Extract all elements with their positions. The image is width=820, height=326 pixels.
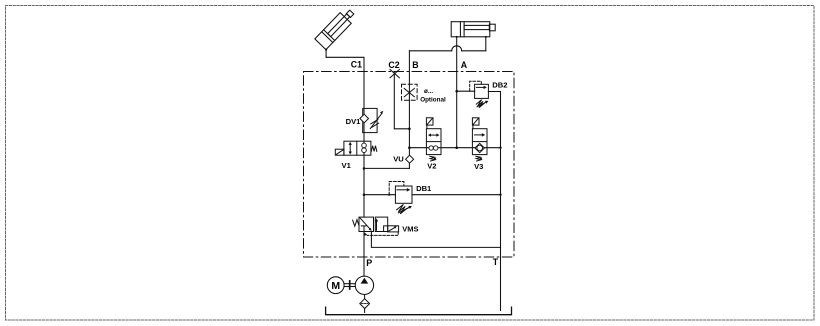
pressure relief valve DB1 bbox=[389, 182, 432, 214]
solenoid valve V3 bbox=[472, 118, 487, 171]
shaft coupling bbox=[344, 281, 355, 289]
cylinder (tilted, C1) bbox=[315, 7, 357, 50]
svg-text:V2: V2 bbox=[427, 161, 436, 170]
wire: DB1 line bbox=[364, 194, 501, 196]
svg-text:C1: C1 bbox=[351, 59, 362, 69]
power unit boundary bbox=[304, 72, 515, 258]
junction dots bbox=[325, 36, 502, 196]
node A bbox=[461, 60, 468, 70]
wire: T line down bbox=[500, 148, 502, 311]
solenoid valve V1 bbox=[335, 141, 377, 170]
node C2 (plugged) bbox=[388, 60, 399, 78]
orifice (optional) bbox=[402, 84, 446, 103]
svg-text:V1: V1 bbox=[342, 161, 352, 170]
throttle check valve DV1 bbox=[346, 108, 384, 132]
node T bbox=[493, 257, 499, 267]
solenoid seat valve VMS bbox=[353, 217, 419, 236]
wire: cylinder C1 stub down bbox=[325, 50, 327, 58]
svg-text:B: B bbox=[412, 60, 418, 70]
node C1 bbox=[351, 59, 362, 69]
wire: top horizontal to C1 bbox=[326, 57, 364, 141]
wire: DB2 out to T line bbox=[488, 92, 500, 148]
wire: A line from cylinder down to valve row bbox=[456, 37, 458, 148]
svg-text:C2: C2 bbox=[388, 60, 399, 70]
tank bbox=[326, 307, 512, 315]
wire: V1 down / main pressure line bbox=[363, 155, 365, 217]
node B bbox=[412, 60, 418, 70]
wire: VMS output to T bbox=[371, 232, 500, 248]
node P bbox=[366, 258, 372, 268]
pump bbox=[355, 276, 373, 294]
suction filter bbox=[360, 295, 370, 313]
svg-text:VU: VU bbox=[393, 155, 404, 164]
svg-text:DV1: DV1 bbox=[346, 117, 362, 126]
pressure relief valve DB2 bbox=[457, 81, 508, 108]
svg-text:DB1: DB1 bbox=[416, 184, 432, 193]
svg-text:DB2: DB2 bbox=[492, 81, 507, 90]
wire: valve row line B to T bbox=[409, 147, 500, 149]
svg-text:V3: V3 bbox=[474, 162, 483, 171]
cylinder (horizontal, A/B) bbox=[451, 22, 495, 37]
wire: VU return to V1 line bbox=[364, 167, 409, 169]
wire: P line down to pump bbox=[363, 232, 365, 277]
svg-text:A: A bbox=[461, 60, 468, 70]
wire: B pipe from cylinder rod end with crossover arc bbox=[409, 37, 485, 51]
svg-text:T: T bbox=[493, 257, 499, 267]
svg-text:VMS: VMS bbox=[402, 224, 418, 233]
wire: B line down bbox=[408, 51, 410, 148]
svg-text:M: M bbox=[331, 280, 340, 292]
wire: C2 line to B bbox=[394, 73, 409, 129]
svg-text:Optional: Optional bbox=[420, 96, 446, 103]
solenoid valve V2 bbox=[426, 118, 441, 171]
svg-text:P: P bbox=[366, 258, 372, 268]
motor M bbox=[327, 277, 344, 294]
svg-text:ø...: ø... bbox=[424, 88, 433, 95]
check valve VU bbox=[393, 148, 413, 169]
